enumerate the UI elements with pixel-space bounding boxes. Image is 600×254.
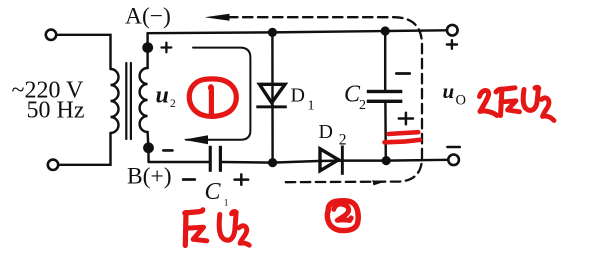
wire secondary bottom to node B — [148, 132, 149, 162]
svg-text:D: D — [319, 121, 333, 143]
label ~220 V 50 Hz — [12, 78, 85, 124]
red 2 sqrt2 U2: F mid bar and z tail — [501, 101, 520, 112]
red 2 sqrt2 U2: subscript 2 — [542, 98, 555, 121]
red text 2 sqrt2 U2 right of uO: leading 2 — [480, 90, 498, 115]
svg-text:50 Hz: 50 Hz — [27, 98, 85, 124]
transformer core — [126, 63, 131, 139]
wire bottom rail C1 to D1 bottom — [222, 161, 318, 163]
polarity + right of C1 — [235, 174, 249, 184]
terminal top-left — [46, 30, 56, 40]
red 2 sqrt2 U2: F top bar — [496, 88, 515, 92]
svg-text:1: 1 — [308, 99, 315, 114]
node B junction dot — [143, 142, 154, 153]
svg-text:1: 1 — [224, 199, 229, 209]
wire secondary top to node A — [146, 33, 148, 68]
svg-text:2: 2 — [170, 98, 176, 110]
polarity + below top-right terminal — [447, 40, 457, 49]
red text sqrt2 U2: subscript 2 — [239, 226, 250, 246]
polarity - at node B — [163, 149, 172, 152]
terminal bottom-left — [48, 160, 58, 170]
svg-text:A(−): A(−) — [125, 4, 171, 30]
svg-text:u: u — [156, 83, 169, 109]
red circled 1 stroke — [208, 87, 214, 114]
svg-text:u: u — [443, 79, 455, 103]
wire primary bottom — [59, 133, 111, 165]
polarity - above C2 — [396, 72, 409, 75]
wire bottom rail left of C1 — [149, 161, 209, 163]
wire primary top — [57, 35, 111, 69]
svg-text:C: C — [205, 179, 222, 205]
primary winding — [111, 69, 119, 133]
loop 2 bottom arrowhead — [372, 180, 382, 185]
diode D2 cathode bar — [341, 146, 344, 175]
red text sqrt2 U2: F top bar — [185, 210, 203, 213]
svg-text:B(+): B(+) — [127, 164, 172, 190]
red 2 sqrt2 U2: U — [523, 87, 539, 110]
red 2 sqrt2 U2: F stroke — [501, 89, 503, 116]
secondary winding — [140, 68, 148, 132]
svg-text:2: 2 — [359, 98, 366, 113]
capacitor C1 left plate — [209, 146, 212, 172]
diode D1 cathode bar — [256, 105, 287, 108]
red text sqrt2 U2: F mid bar and z tail — [186, 227, 207, 241]
red circled 1 annotation — [189, 79, 236, 117]
capacitor C2 leads — [384, 31, 387, 161]
current loop 1 solid line — [186, 48, 250, 140]
junction dot D1 bottom — [268, 158, 277, 167]
diode D2 lead through triangle — [318, 159, 343, 162]
diode D2 triangle — [320, 149, 339, 171]
polarity - left of C1 — [183, 178, 195, 181]
polarity + below C2 — [399, 113, 413, 125]
red text sqrt2 U2 below C1: F stroke — [183, 213, 189, 246]
red text sqrt2 U2: U — [219, 212, 236, 241]
polarity - above bottom-right terminal — [447, 146, 459, 149]
diode D1 triangle — [260, 84, 286, 103]
current loop 2 dashed line — [228, 17, 422, 182]
red 2 glyph inside circle — [334, 204, 351, 221]
wire top rail — [148, 30, 447, 33]
terminal bottom-right — [448, 155, 459, 166]
capacitor C2 top plate — [367, 90, 403, 93]
svg-text:O: O — [456, 93, 466, 109]
junction dot C2 top — [381, 26, 390, 35]
red double underline near C2 — [385, 132, 421, 142]
red circled 2 annotation — [327, 201, 358, 231]
junction dot right of D2 — [382, 156, 391, 165]
terminal top-right — [447, 25, 458, 36]
polarity + at node A — [162, 43, 172, 53]
wire bottom rail D2 to terminal — [344, 159, 449, 162]
capacitor C1 right plate — [219, 146, 222, 172]
capacitor C2 bottom plate — [367, 100, 403, 103]
diode D1 vertical leads — [271, 32, 274, 162]
junction dot D1 top — [268, 28, 277, 37]
svg-text:2: 2 — [339, 132, 347, 149]
loop 1 arrowhead — [184, 135, 209, 144]
loop 2 top arrowhead — [205, 14, 230, 21]
svg-text:D: D — [291, 85, 305, 107]
node A junction dot — [142, 42, 153, 53]
